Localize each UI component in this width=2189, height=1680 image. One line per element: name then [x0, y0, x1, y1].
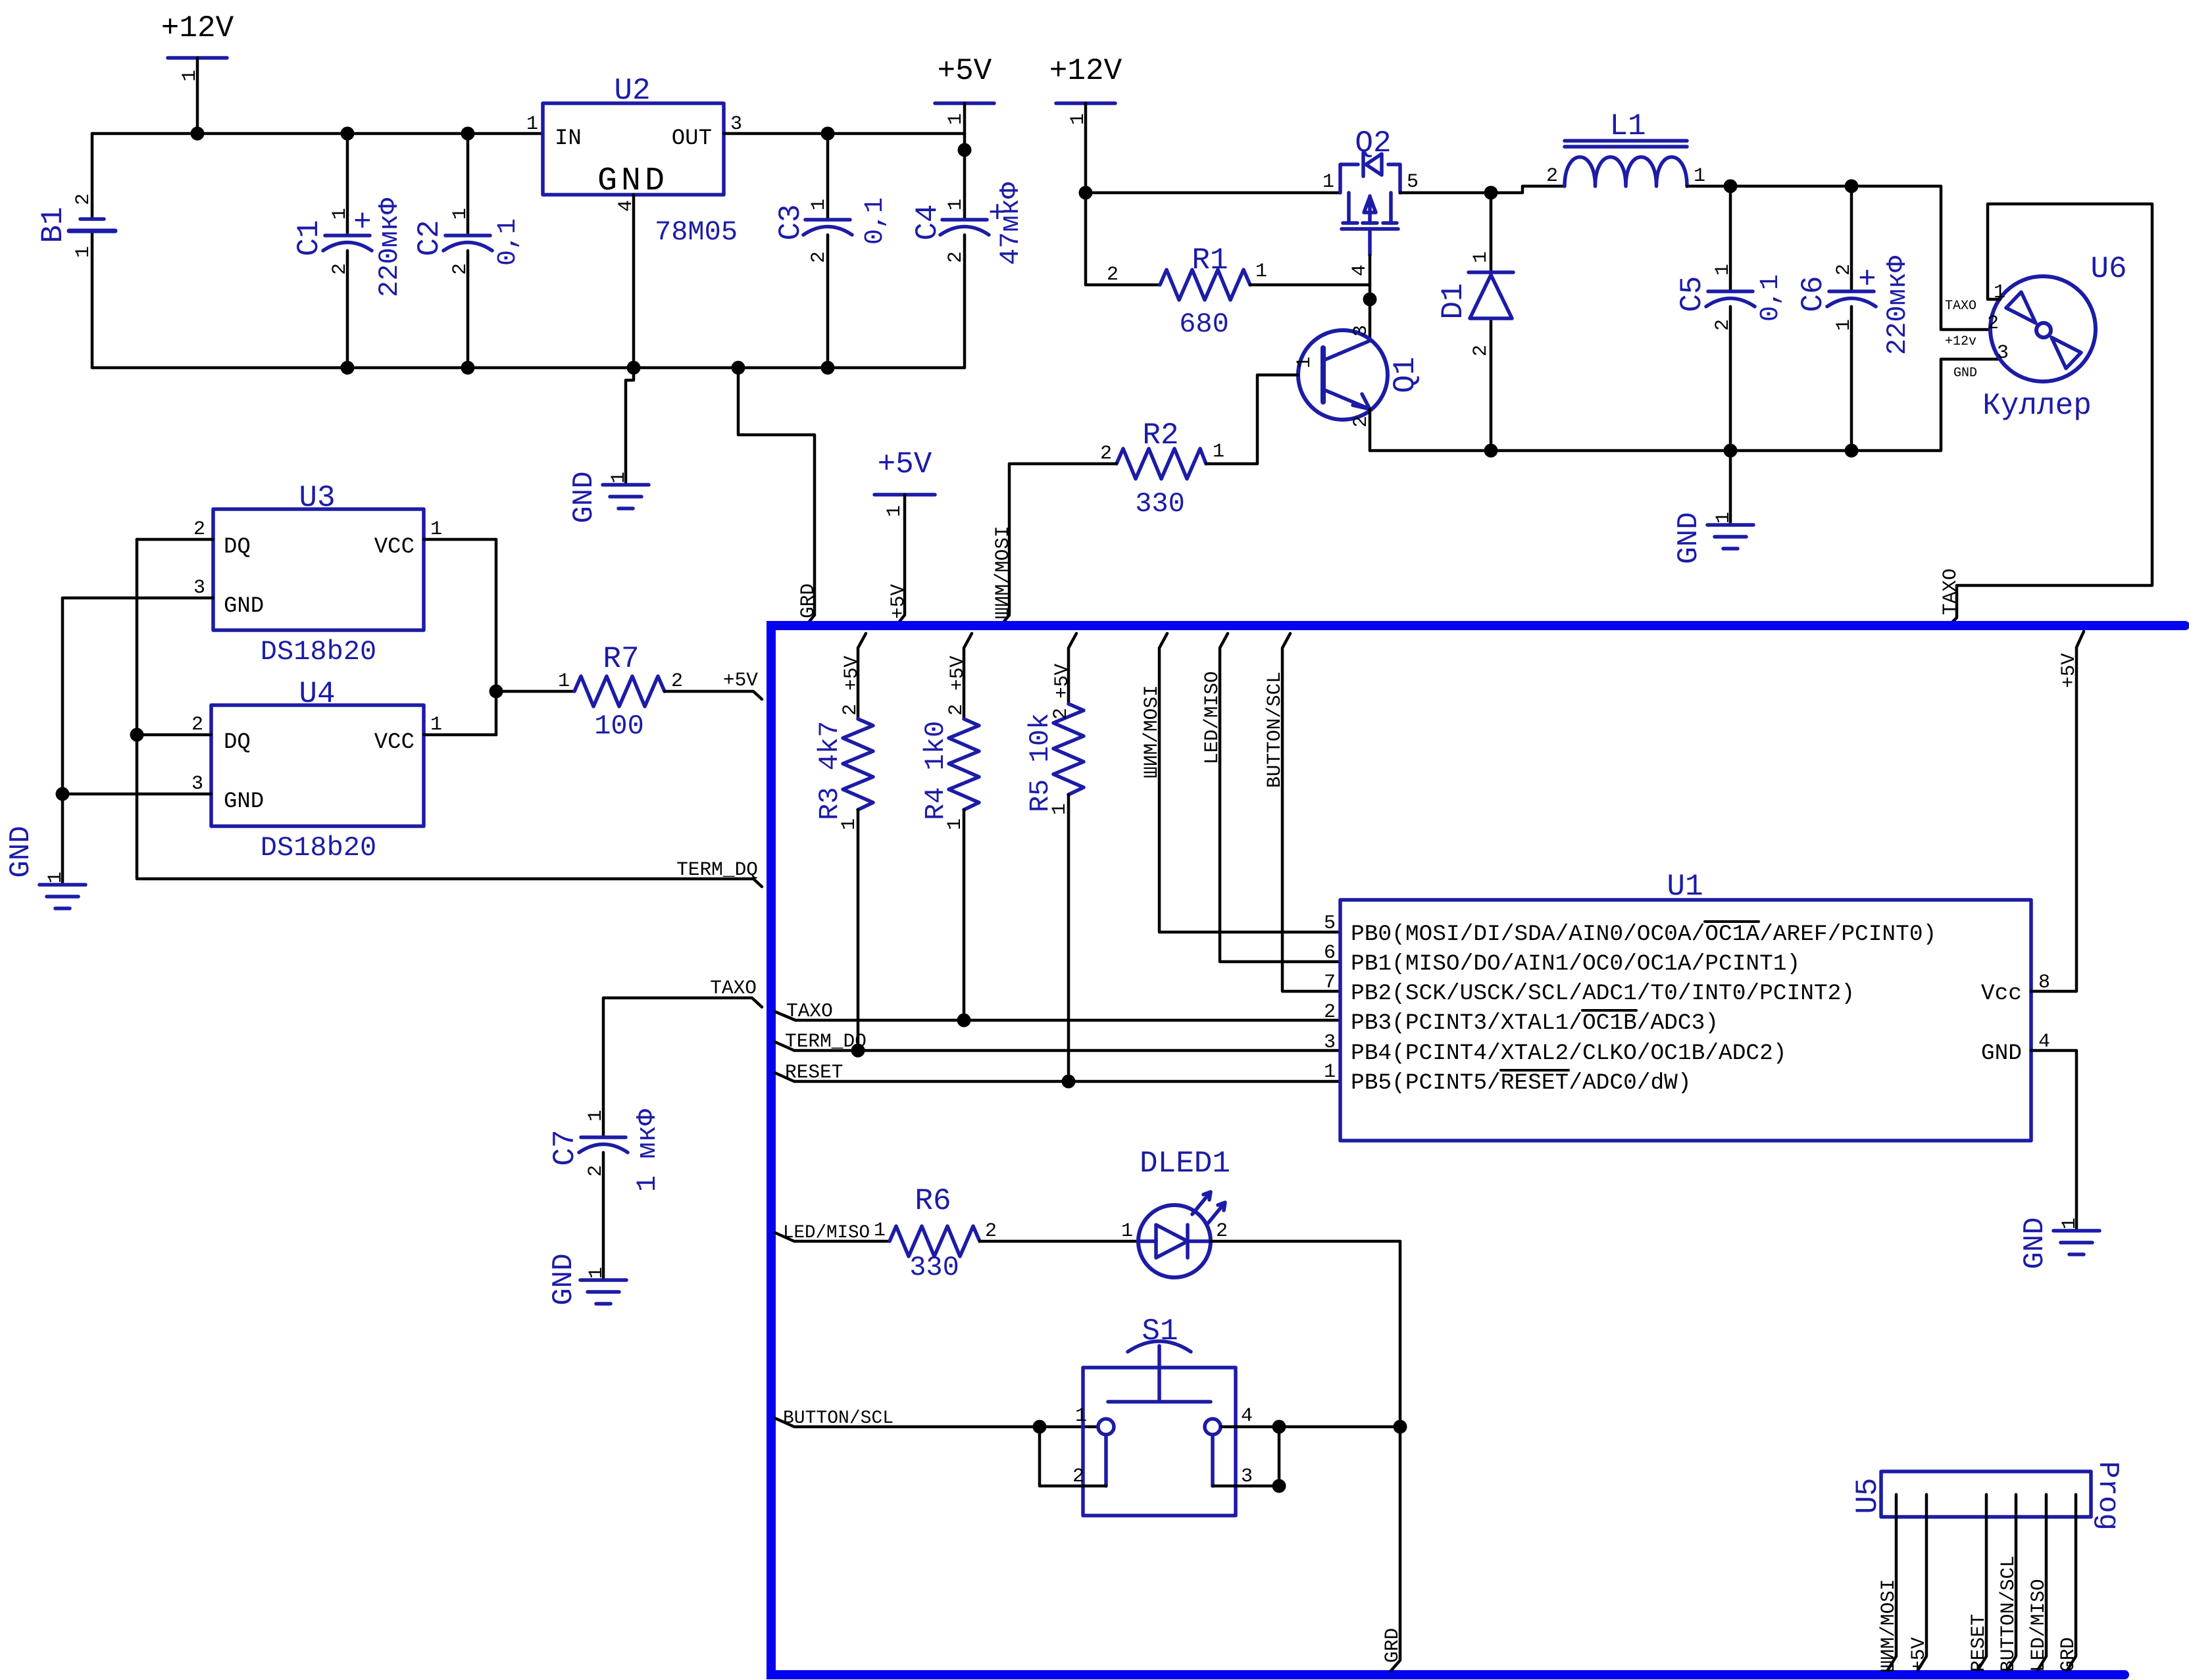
- junction (711,203): [461, 127, 475, 141]
- svg-text:U2: U2: [614, 74, 650, 108]
- power +5V (C4): [935, 54, 994, 134]
- svg-text:+: +: [1858, 262, 1876, 297]
- junction (1258,559): [821, 361, 835, 375]
- wire U4 GND: [63, 793, 211, 796]
- svg-text:2: 2: [193, 518, 205, 541]
- svg-text:D1: D1: [1436, 283, 1471, 319]
- svg-text:1: 1: [586, 1267, 608, 1279]
- svg-text:GND: GND: [547, 1253, 580, 1305]
- svg-text:GND: GND: [5, 826, 38, 877]
- wire U5 pin LED/MISO: [2038, 1495, 2046, 1670]
- svg-text:GRD: GRD: [1381, 1628, 1403, 1663]
- svg-text:1: 1: [945, 199, 967, 210]
- wire BUTTON/SCL to PB2: [1282, 633, 1340, 991]
- svg-text:ШИМ/MOSI: ШИМ/MOSI: [992, 526, 1014, 619]
- wire GND pin4: [2031, 1050, 2076, 1231]
- svg-text:+5V: +5V: [1051, 664, 1073, 699]
- svg-text:LED/MISO: LED/MISO: [2027, 1579, 2050, 1672]
- svg-text:R7: R7: [603, 642, 639, 676]
- svg-text:1: 1: [884, 505, 906, 517]
- svg-text:1: 1: [2059, 1218, 2081, 1229]
- junction (1465,1551): [957, 1014, 971, 1027]
- junction (528,203): [341, 127, 355, 141]
- svg-text:R4 1k0: R4 1k0: [920, 721, 951, 820]
- svg-text:1: 1: [1694, 165, 1705, 187]
- SEC2: [874, 54, 2152, 626]
- svg-text:DQ: DQ: [224, 730, 251, 755]
- svg-text:2: 2: [191, 714, 203, 736]
- svg-text:1: 1: [1712, 264, 1734, 276]
- svg-text:1: 1: [430, 714, 442, 736]
- transistor Q1 NPN: [1294, 325, 1422, 428]
- capacitor C5: [1675, 186, 1786, 451]
- wire gnd stub: [626, 368, 634, 485]
- wire U5 pin GRD: [2067, 1495, 2076, 1670]
- wire bottom rail GND: [92, 366, 965, 370]
- junction (2814,283): [1845, 180, 1859, 193]
- svg-text:Q1: Q1: [1388, 357, 1422, 393]
- svg-text:+12v: +12v: [1945, 334, 1976, 349]
- capacitor C1: [292, 134, 405, 368]
- wire fan taxo pin1: [1948, 204, 2152, 626]
- resistor R3 4k7: [814, 633, 873, 1050]
- svg-text:BUTTON/SCL: BUTTON/SCL: [1263, 672, 1286, 788]
- junction (1258,203): [821, 127, 835, 141]
- wire U3 VCC: [424, 538, 496, 541]
- svg-text:R3 4k7: R3 4k7: [814, 721, 845, 820]
- capacitor C3: [774, 134, 890, 368]
- resistor R5 10k: [1024, 633, 1084, 1081]
- svg-text:2: 2: [1987, 312, 1999, 335]
- capacitor C6: [1796, 186, 1913, 451]
- wire L1 to fan rail: [1687, 186, 1990, 330]
- wire LED to button column: [1211, 1241, 1400, 1671]
- wire U4 VCC: [424, 733, 496, 737]
- wire U3 GND: [63, 597, 213, 600]
- svg-text:VCC: VCC: [374, 730, 415, 755]
- junction (963,559): [627, 361, 641, 375]
- wire net TERM_DQ interior: [775, 1042, 1340, 1050]
- wire Q2 drain to L1: [1400, 186, 1565, 193]
- svg-text:+5V: +5V: [946, 656, 969, 691]
- svg-text:LED/MISO: LED/MISO: [783, 1223, 870, 1243]
- svg-text:TAXO: TAXO: [1945, 299, 1976, 314]
- svg-text:R6: R6: [915, 1184, 951, 1218]
- wire R6 to LED: [980, 1240, 1138, 1243]
- svg-text:+12V: +12V: [161, 11, 234, 45]
- svg-text:1: 1: [449, 208, 472, 220]
- wire Q1 emitter down: [1369, 409, 1372, 451]
- wire buck gnd rail: [1370, 359, 1999, 451]
- junction (711,559): [461, 361, 475, 375]
- svg-text:TAXO: TAXO: [786, 1000, 833, 1022]
- svg-text:PB3(PCINT3/XTAL1/OC1B/ADC3): PB3(PCINT3/XTAL1/OC1B/ADC3): [1351, 1010, 1719, 1036]
- wire U4 DQ: [137, 733, 211, 737]
- svg-text:3: 3: [191, 773, 203, 795]
- diode D1: [1436, 193, 1513, 451]
- svg-text:1: 1: [430, 518, 442, 541]
- svg-text:C7: C7: [548, 1129, 582, 1166]
- svg-text:VCC: VCC: [374, 535, 415, 560]
- SEC4: [771, 626, 2185, 1675]
- svg-text:TAXO: TAXO: [710, 977, 757, 999]
- junction (1580,2169): [1033, 1420, 1047, 1434]
- wire S1 pin4: [1222, 1425, 1400, 1429]
- wire GRD from rail to box: [738, 368, 815, 626]
- svg-text:0,1: 0,1: [1756, 274, 1786, 322]
- svg-text:1: 1: [874, 1220, 886, 1242]
- svg-text:GND: GND: [568, 471, 601, 523]
- resistor R1 680: [1107, 243, 1267, 340]
- wire Q2 gate down: [1369, 255, 1372, 341]
- ground GND (U1): [2019, 1217, 2100, 1269]
- svg-text:TAXO: TAXO: [1939, 568, 1961, 615]
- wire R2 left / net ШИМ-MOSI entry: [1001, 464, 1117, 626]
- svg-text:U5: U5: [1851, 1477, 1885, 1514]
- ground GND (U2): [568, 471, 649, 523]
- resistor R4 1k0: [920, 633, 979, 1020]
- svg-text:PB0(MOSI/DI/SDA/AIN0/OC0A/OC1A: PB0(MOSI/DI/SDA/AIN0/OC0A/OC1A/AREF/PCIN…: [1351, 922, 1936, 947]
- power +5V (mid): [874, 447, 935, 626]
- svg-text:2: 2: [1324, 1001, 1336, 1024]
- svg-text:330: 330: [1135, 488, 1185, 520]
- svg-text:1 мкФ: 1 мкФ: [632, 1108, 663, 1192]
- svg-text:GND: GND: [1673, 512, 1705, 564]
- svg-text:3: 3: [1350, 325, 1372, 337]
- svg-text:B1: B1: [36, 207, 70, 243]
- capacitor C2: [413, 134, 523, 368]
- svg-text:2: 2: [985, 1220, 997, 1243]
- svg-text:1: 1: [329, 208, 351, 220]
- junction (2266,293): [1484, 186, 1498, 200]
- svg-text:+5V: +5V: [2057, 653, 2080, 688]
- svg-text:DLED1: DLED1: [1140, 1147, 1230, 1181]
- connector U5 Prog: [1851, 1461, 2124, 1531]
- svg-text:0,1: 0,1: [861, 197, 890, 245]
- svg-text:RESET: RESET: [785, 1061, 843, 1083]
- junction (1304,1597): [851, 1044, 865, 1058]
- svg-text:1: 1: [45, 872, 67, 883]
- ground GND (buck): [1673, 512, 1753, 564]
- svg-text:2: 2: [1216, 1220, 1228, 1243]
- wire down to R1: [1086, 193, 1160, 285]
- svg-text:1: 1: [1213, 441, 1224, 463]
- svg-text:2: 2: [840, 704, 862, 716]
- wire U5 pin +5V: [1918, 1495, 1926, 1670]
- svg-text:BUTTON/SCL: BUTTON/SCL: [1997, 1556, 2019, 1672]
- wire DQ bus / TERM_DQ: [137, 539, 762, 887]
- svg-text:2: 2: [72, 193, 95, 205]
- svg-text:PB5(PCINT5/RESET/ADC0/dW): PB5(PCINT5/RESET/ADC0/dW): [1351, 1070, 1692, 1096]
- junction (1944,2169): [1272, 1420, 1286, 1434]
- svg-text:ШИМ/MOSI: ШИМ/MOSI: [1140, 685, 1163, 778]
- svg-text:1: 1: [1255, 260, 1267, 283]
- battery B1: [36, 134, 115, 368]
- svg-text:2: 2: [1100, 443, 1112, 465]
- wire S1 pin4-pin3 strap: [1213, 1427, 1279, 1486]
- svg-text:BUTTON/SCL: BUTTON/SCL: [783, 1408, 893, 1429]
- junction (2814,685): [1845, 444, 1859, 458]
- junction (528,559): [341, 361, 355, 375]
- svg-text:OUT: OUT: [672, 126, 712, 151]
- svg-text:330: 330: [909, 1252, 959, 1283]
- svg-text:2: 2: [1712, 319, 1734, 331]
- svg-text:1: 1: [808, 199, 830, 210]
- svg-text:GRD: GRD: [2057, 1637, 2079, 1672]
- svg-text:47мкФ: 47мкФ: [995, 182, 1026, 265]
- svg-text:+5V: +5V: [887, 584, 909, 619]
- svg-text:3: 3: [1324, 1031, 1336, 1054]
- svg-text:DQ: DQ: [224, 535, 251, 560]
- svg-text:U4: U4: [299, 677, 335, 711]
- wire net TAXO interior: [775, 1012, 1340, 1020]
- svg-text:2: 2: [945, 704, 968, 716]
- svg-text:LED/MISO: LED/MISO: [1201, 671, 1223, 764]
- svg-text:3: 3: [1997, 342, 2009, 364]
- svg-text:1: 1: [72, 246, 95, 258]
- svg-text:GND: GND: [224, 789, 264, 814]
- node junction +12V/rail: [191, 127, 205, 141]
- resistor R7 100: [496, 642, 762, 742]
- svg-text:C1: C1: [292, 220, 326, 256]
- svg-text:GND: GND: [2019, 1217, 2051, 1269]
- switch S1: [1072, 1314, 1253, 1516]
- wire +12V rail to Q2 pin1: [1086, 191, 1340, 195]
- junction (1650,293): [1079, 186, 1093, 200]
- SEC5: [775, 1147, 2124, 1672]
- svg-text:PB2(SCK/USCK/SCL/ADC1/T0/INT0/: PB2(SCK/USCK/SCL/ADC1/T0/INT0/PCINT2): [1351, 981, 1855, 1006]
- wire +5V right / Vcc pin8: [2031, 631, 2084, 991]
- power +12V: [161, 11, 234, 134]
- svg-text:7: 7: [1324, 972, 1336, 994]
- svg-text:C5: C5: [1675, 276, 1709, 312]
- svg-text:4: 4: [1241, 1405, 1253, 1427]
- svg-text:100: 100: [594, 710, 644, 742]
- resistor R2 330: [1100, 418, 1224, 520]
- wire U5 pin BUTTON/SCL: [2007, 1495, 2016, 1670]
- svg-text:+5V: +5V: [1907, 1637, 1930, 1672]
- svg-text:2: 2: [671, 670, 683, 693]
- wire top rail +12V: [92, 132, 543, 136]
- svg-text:1: 1: [944, 818, 967, 830]
- wire Q1 base: [1257, 375, 1298, 464]
- junction (2266,685): [1484, 444, 1498, 458]
- MCU block border: [771, 626, 2185, 1675]
- svg-text:PB1(MISO/DO/AIN1/OC0/OC1A/PCIN: PB1(MISO/DO/AIN1/OC0/OC1A/PCINT1): [1351, 951, 1800, 977]
- svg-text:C3: C3: [774, 204, 808, 240]
- wire net RESET interior: [775, 1073, 1340, 1081]
- svg-text:+5V: +5V: [723, 669, 758, 691]
- svg-text:C6: C6: [1796, 276, 1830, 312]
- wire U2 out: [724, 132, 965, 136]
- junction (1122,559): [732, 361, 745, 375]
- sensor U4 DS18b20: [191, 677, 442, 864]
- svg-text:RESET: RESET: [1967, 1614, 1990, 1672]
- wire VCC bus: [495, 539, 498, 735]
- svg-text:DS18b20: DS18b20: [261, 832, 376, 864]
- LED DLED1: [1121, 1147, 1230, 1277]
- ground GND (C7): [547, 1253, 626, 1305]
- junction (2630,685): [1724, 444, 1738, 458]
- wire U5 pin RESET: [1978, 1495, 1986, 1670]
- svg-text:GND: GND: [224, 594, 264, 619]
- svg-text:Q2: Q2: [1355, 126, 1391, 161]
- svg-text:1: 1: [526, 113, 538, 136]
- svg-text:1: 1: [1075, 1405, 1087, 1427]
- junction (1944,2259): [1272, 1479, 1286, 1493]
- svg-text:C4: C4: [911, 204, 945, 240]
- svg-text:1: 1: [1121, 1220, 1133, 1243]
- svg-text:2: 2: [1050, 708, 1072, 720]
- svg-text:+5V: +5V: [938, 54, 992, 88]
- svg-text:0,1: 0,1: [493, 218, 523, 266]
- svg-text:1: 1: [838, 818, 861, 830]
- power +12V (buck): [1049, 54, 1122, 193]
- svg-text:U3: U3: [299, 481, 335, 515]
- junction (2128,2169): [1394, 1420, 1407, 1434]
- wire U3 DQ: [137, 538, 213, 541]
- svg-text:GND: GND: [1953, 366, 1977, 381]
- svg-text:Vcc: Vcc: [1981, 981, 2022, 1006]
- MCU U1 ATtiny: [1324, 870, 2050, 1141]
- svg-text:Prog: Prog: [2091, 1461, 2124, 1531]
- wire R1 to gate: [1250, 284, 1370, 287]
- svg-text:U6: U6: [2090, 252, 2126, 286]
- svg-text:1: 1: [1049, 803, 1071, 815]
- wire ШИМ/MOSI to PB0: [1159, 633, 1340, 932]
- svg-text:1: 1: [1324, 1061, 1336, 1083]
- svg-text:1: 1: [1322, 171, 1334, 193]
- svg-text:TERM_DQ: TERM_DQ: [676, 858, 758, 881]
- svg-text:+5V: +5V: [878, 447, 932, 482]
- junction (2082,455): [1363, 293, 1377, 307]
- svg-text:Куллер: Куллер: [1982, 389, 2092, 423]
- svg-text:C2: C2: [413, 220, 447, 256]
- junction (95,1207): [56, 787, 70, 801]
- svg-text:220мкФ: 220мкФ: [374, 197, 405, 297]
- svg-text:2: 2: [329, 263, 351, 275]
- inductor L1: [1546, 109, 1705, 187]
- svg-text:L1: L1: [1609, 109, 1646, 143]
- svg-text:680: 680: [1179, 309, 1229, 340]
- svg-text:IN: IN: [555, 126, 582, 151]
- wire U5 pin ШИМ/MOSI: [1888, 1495, 1896, 1670]
- svg-text:2: 2: [808, 251, 830, 263]
- wire GND bus: [61, 598, 64, 885]
- svg-text:3: 3: [193, 577, 205, 599]
- svg-text:GND: GND: [1981, 1041, 2022, 1066]
- capacitor C7: [548, 1108, 663, 1192]
- svg-text:5: 5: [1324, 912, 1336, 935]
- svg-text:2: 2: [449, 263, 472, 275]
- svg-text:1: 1: [585, 1110, 607, 1122]
- svg-text:DS18b20: DS18b20: [261, 636, 376, 668]
- fan U6: [1945, 252, 2127, 423]
- svg-text:+12V: +12V: [1049, 54, 1122, 88]
- svg-text:5: 5: [1407, 171, 1419, 193]
- junction (754,1051): [490, 685, 503, 699]
- svg-text:1: 1: [1470, 251, 1492, 263]
- svg-text:220мкФ: 220мкФ: [1882, 255, 1913, 355]
- wire net LED/MISO interior: [775, 1233, 890, 1241]
- wire LED/MISO to PB1: [1220, 633, 1340, 962]
- svg-text:2: 2: [1107, 264, 1119, 286]
- SEC3: [5, 481, 762, 1306]
- wire net BUTTON/SCL interior: [775, 1418, 1098, 1427]
- junction (208,1117): [130, 728, 144, 742]
- svg-text:4: 4: [1349, 264, 1371, 276]
- svg-text:R5 10k: R5 10k: [1024, 713, 1056, 812]
- wire S1 pin1-pin2 strap: [1040, 1427, 1106, 1486]
- svg-text:R2: R2: [1142, 418, 1178, 453]
- wire gnd stub C5: [1729, 451, 1732, 525]
- svg-text:GRD: GRD: [797, 583, 819, 618]
- ground GND (sensors): [5, 826, 86, 908]
- wire U2 gnd pin4: [632, 195, 636, 368]
- junction (1466,228): [958, 143, 972, 157]
- svg-text:U1: U1: [1667, 870, 1703, 904]
- svg-text:78M05: 78M05: [655, 216, 738, 248]
- svg-text:1: 1: [1833, 319, 1855, 331]
- wire R2 right to Q1 base: [1206, 462, 1257, 466]
- svg-text:+: +: [353, 205, 372, 239]
- svg-text:R1: R1: [1192, 243, 1228, 278]
- svg-text:PB4(PCINT4/XTAL2/CLKO/OC1B/ADC: PB4(PCINT4/XTAL2/CLKO/OC1B/ADC2): [1351, 1041, 1787, 1066]
- SEC1: [36, 11, 1026, 626]
- svg-text:2: 2: [945, 251, 967, 263]
- svg-text:2: 2: [1546, 165, 1558, 187]
- svg-text:2: 2: [1470, 345, 1492, 357]
- svg-text:2: 2: [1833, 264, 1855, 276]
- wire TAXO exterior / C7 top: [603, 998, 762, 1137]
- junction (2630,283): [1724, 180, 1738, 193]
- regulator U2 78M05: [526, 74, 742, 248]
- capacitor C4: [911, 134, 1026, 368]
- resistor R6 330: [874, 1184, 997, 1283]
- transistor Q2 (P-MOSFET): [1322, 126, 1419, 276]
- svg-text:1: 1: [558, 670, 570, 693]
- svg-text:6: 6: [1324, 942, 1336, 964]
- svg-text:1: 1: [1294, 357, 1316, 368]
- wire C7 bottom: [602, 1152, 605, 1280]
- svg-text:1: 1: [608, 472, 630, 483]
- svg-text:+5V: +5V: [840, 656, 863, 691]
- sensor U3 DS18b20: [193, 481, 442, 668]
- svg-text:1: 1: [1713, 512, 1735, 524]
- svg-text:ШИМ/MOSI: ШИМ/MOSI: [1877, 1579, 1900, 1672]
- junction (1624,1644): [1062, 1075, 1076, 1089]
